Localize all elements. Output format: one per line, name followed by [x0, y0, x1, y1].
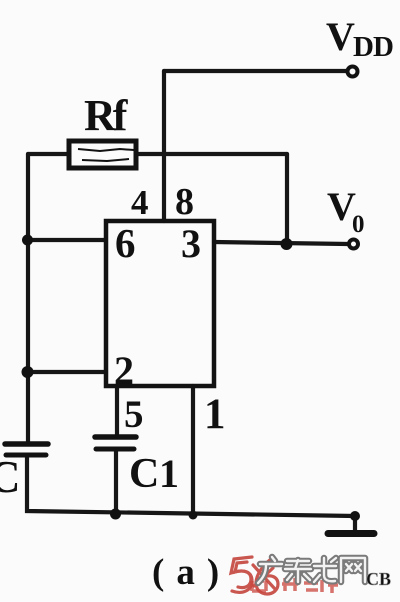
capacitor C1 — [95, 437, 136, 449]
wire — [164, 69, 347, 73]
node: junction pin2 / left rail — [22, 366, 34, 378]
svg-text:C: C — [129, 451, 159, 497]
terminal VDD — [348, 67, 358, 77]
wire — [27, 455, 355, 516]
wire — [214, 242, 348, 244]
svg-text:1: 1 — [159, 451, 179, 496]
watermark glyph 网 — [341, 558, 365, 582]
svg-text:2: 2 — [114, 348, 134, 393]
wire — [136, 152, 287, 156]
terminal V0 — [349, 240, 358, 249]
wire — [285, 154, 289, 244]
red figure number 5 — [231, 557, 252, 592]
wire — [353, 516, 357, 531]
red partial strokes under watermark — [252, 578, 338, 593]
node: junction C1 bottom — [110, 509, 121, 520]
wire — [115, 386, 119, 437]
node: junction pin3 / feedback — [281, 238, 293, 250]
capacitor C — [5, 444, 48, 455]
wire — [28, 238, 106, 242]
ground — [328, 530, 374, 537]
resistor Rf — [69, 141, 136, 168]
svg-text:3: 3 — [181, 221, 201, 266]
svg-text:CB: CB — [366, 569, 391, 589]
watermark glyph 东 — [285, 560, 311, 582]
red figure number 6 — [253, 557, 278, 594]
svg-text:(a): (a) — [152, 552, 231, 593]
wire — [162, 71, 166, 221]
IC U1 555-timer box — [106, 221, 214, 386]
svg-text:Rf: Rf — [84, 91, 129, 140]
wire — [26, 154, 30, 444]
svg-text:5: 5 — [124, 393, 144, 436]
node: junction at ground — [350, 511, 360, 521]
wire — [191, 386, 195, 515]
wire — [114, 449, 118, 514]
svg-text:6: 6 — [115, 220, 136, 266]
node: junction at Rf-left / pin6 — [22, 235, 33, 246]
svg-text:8: 8 — [175, 181, 194, 223]
svg-text:1: 1 — [204, 391, 226, 438]
svg-text:4: 4 — [131, 183, 149, 222]
watermark glyph 龙 — [314, 558, 336, 582]
svg-text:DD: DD — [353, 31, 393, 63]
svg-text:0: 0 — [352, 211, 365, 238]
svg-text:V: V — [326, 14, 355, 59]
node: junction pin1 bottom — [189, 511, 198, 520]
watermark glyph 广 — [258, 557, 282, 583]
svg-text:C: C — [0, 452, 21, 502]
wire — [28, 152, 69, 156]
wire — [28, 370, 106, 374]
